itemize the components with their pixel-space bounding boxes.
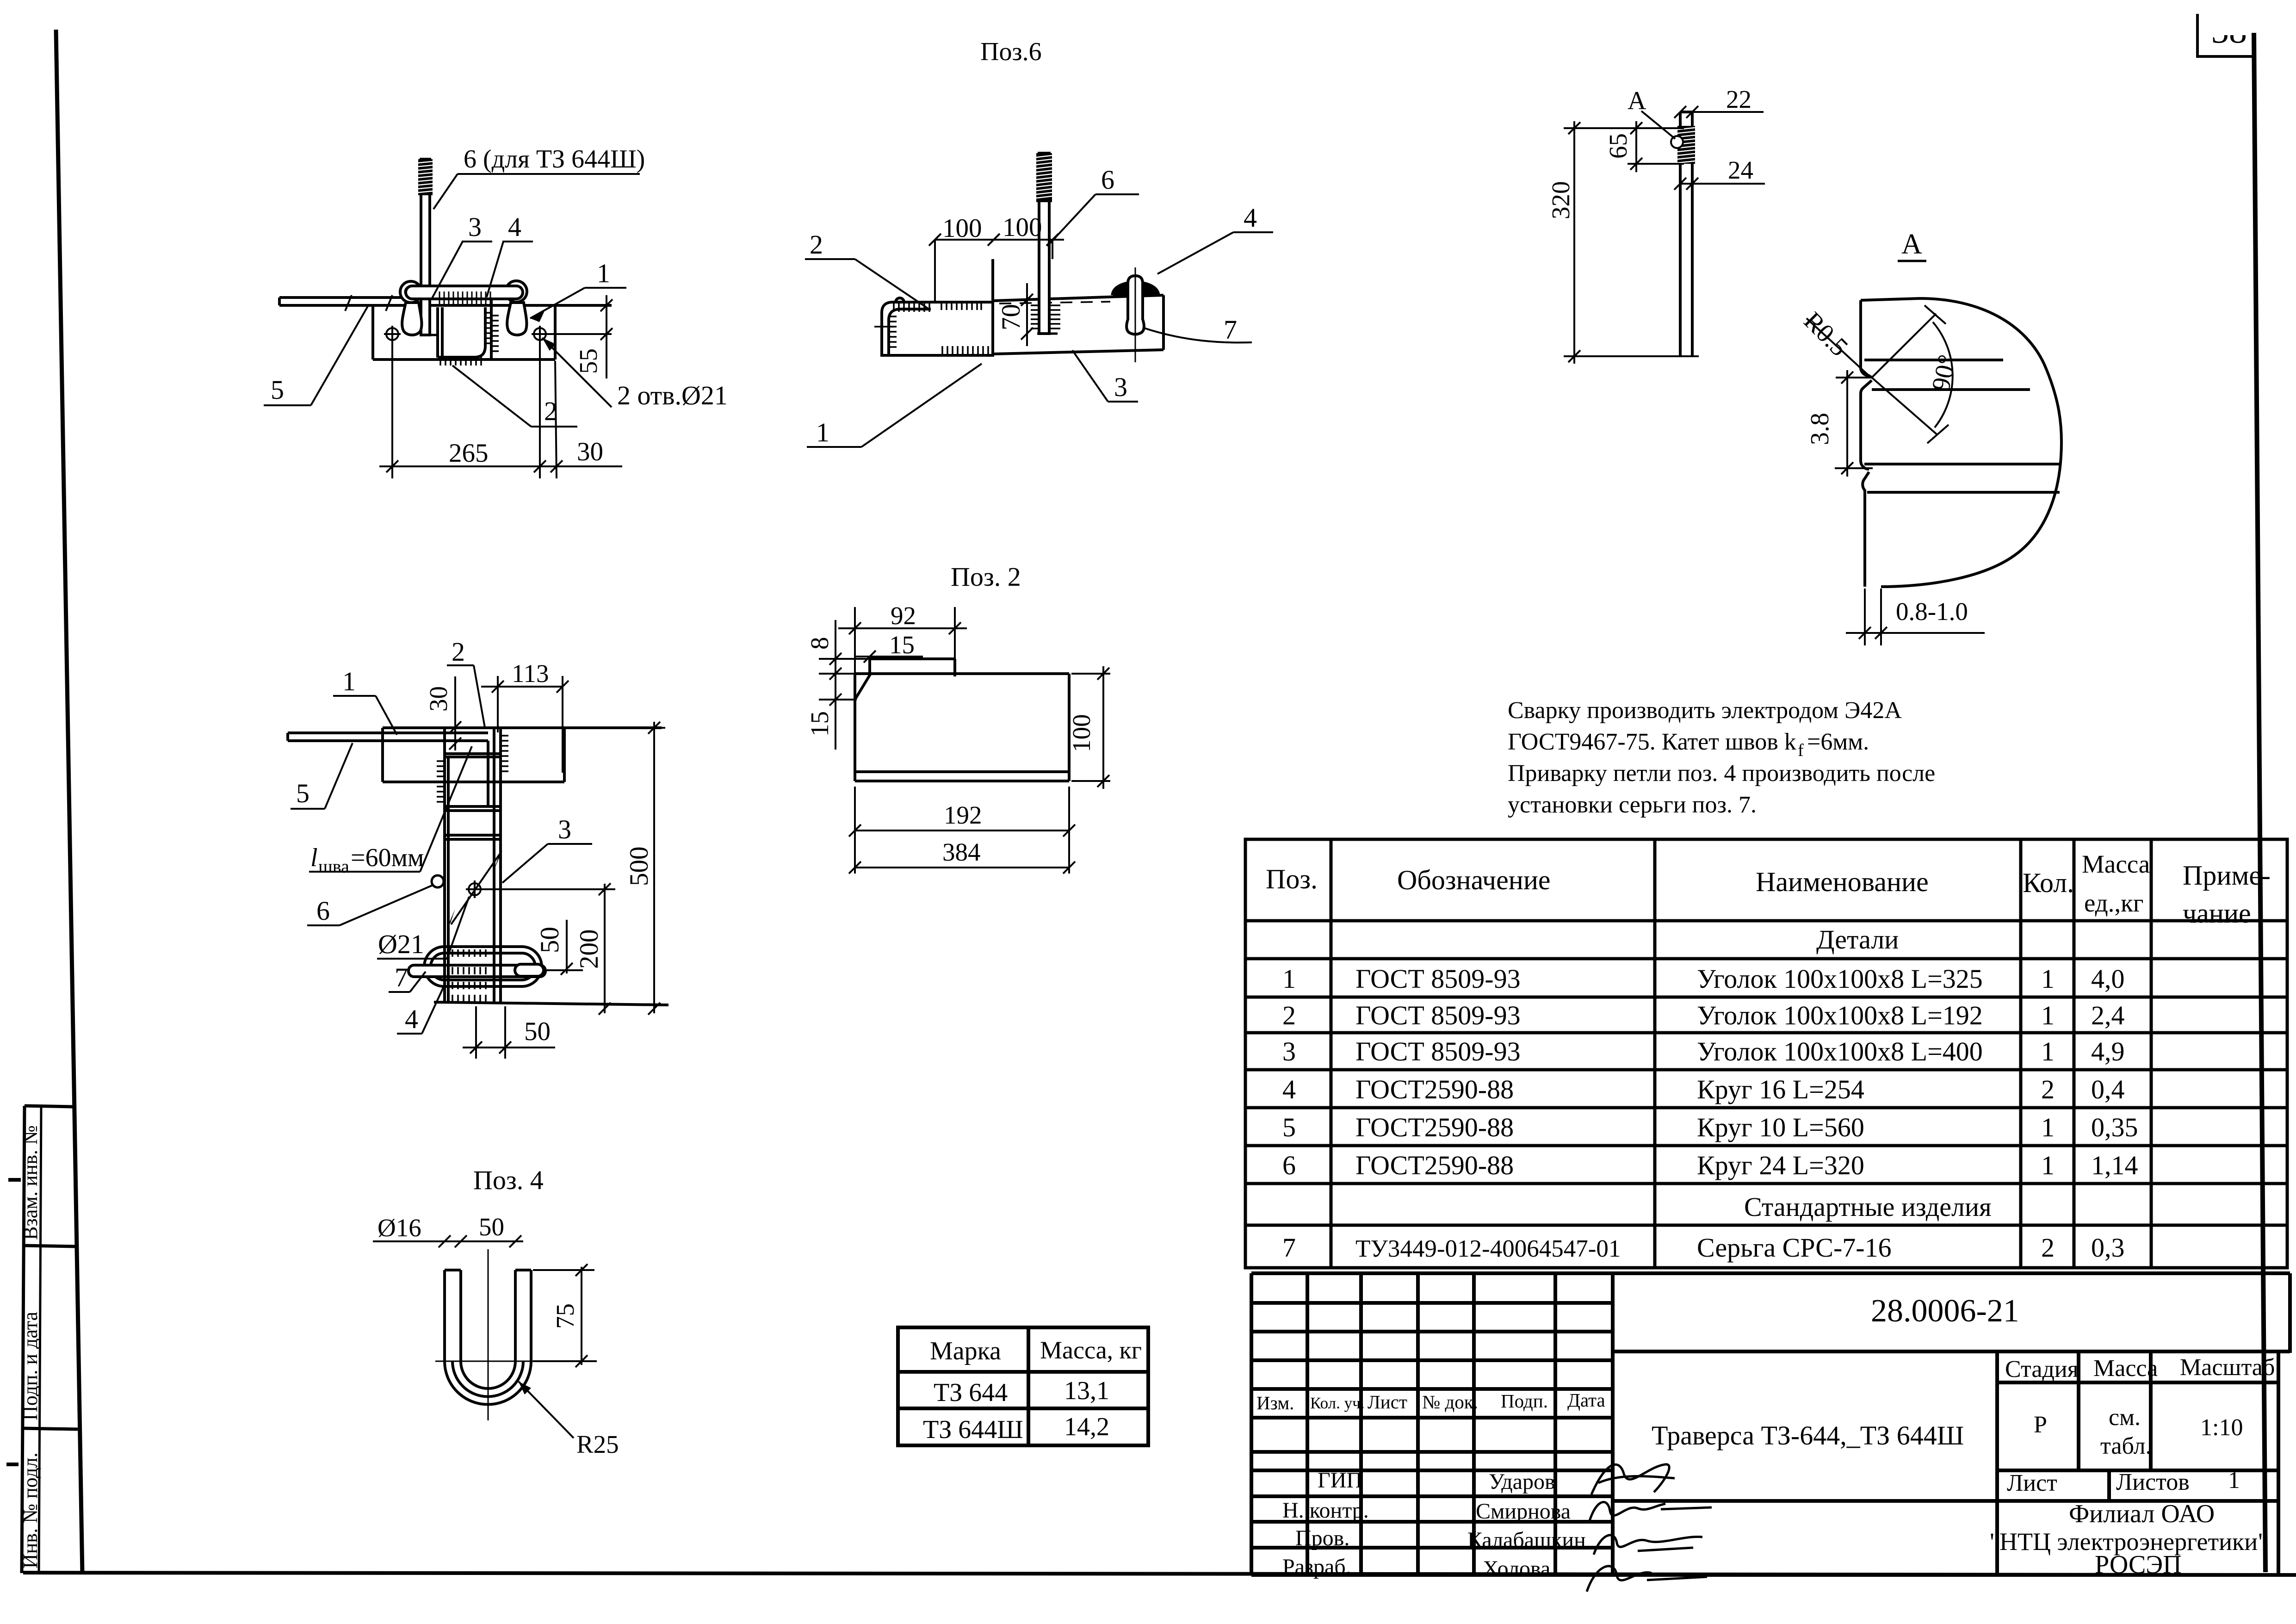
- v3 hole arrow: [451, 854, 500, 924]
- svg-text:Разраб.: Разраб.: [1282, 1555, 1351, 1579]
- svg-text:3.8: 3.8: [1806, 413, 1834, 445]
- svg-text:200: 200: [575, 930, 604, 969]
- title block main divider: [1611, 1273, 1615, 1575]
- poz.2 dim 15 top: [855, 656, 923, 657]
- v3 chain middle link: [431, 953, 535, 980]
- svg-text:Уголок 100х100х8 L=400: Уголок 100х100х8 L=400: [1697, 1036, 1983, 1066]
- v1 hole right: [534, 328, 546, 340]
- svg-text:R25: R25: [576, 1430, 619, 1458]
- svg-text:2 отв.Ø21: 2 отв.Ø21: [617, 380, 728, 410]
- svg-text:15: 15: [805, 711, 834, 737]
- svg-text:ГОСТ 8509-93: ГОСТ 8509-93: [1355, 1000, 1521, 1030]
- v1 bolt poz.6 rod: [421, 159, 430, 335]
- svg-text:1: 1: [2041, 1150, 2055, 1180]
- svg-text:чание: чание: [2183, 898, 2251, 929]
- svg-text:15: 15: [889, 631, 915, 659]
- v2 dim 70: [1026, 283, 1028, 346]
- svg-text:Стандартные изделия: Стандартные изделия: [1744, 1192, 1992, 1222]
- v3 weld hatch right of column: [501, 735, 508, 737]
- svg-text:Стадия: Стадия: [2005, 1356, 2079, 1382]
- parts table column lines: [1330, 839, 1333, 1268]
- svg-text:28.0006-21: 28.0006-21: [1871, 1293, 2019, 1329]
- svg-text:Масса: Масса: [2082, 850, 2150, 878]
- svg-text:ГОСТ2590-88: ГОСТ2590-88: [1355, 1112, 1514, 1142]
- svg-text:Листов: Листов: [2116, 1469, 2190, 1495]
- svg-text:100: 100: [1067, 714, 1095, 753]
- v1 hole left: [386, 328, 398, 340]
- svg-text:13,1: 13,1: [1064, 1376, 1109, 1405]
- svg-text:1:10: 1:10: [2200, 1414, 2243, 1441]
- svg-text:табл.: табл.: [2100, 1433, 2152, 1459]
- svg-text:1: 1: [597, 258, 610, 288]
- v1 shackle ring left inner: [405, 286, 416, 298]
- v3 dim 500: [567, 727, 665, 729]
- v2 pin poz.4 end view: [1126, 276, 1144, 335]
- poz.6 rod outline: [1679, 112, 1682, 357]
- svg-text:=6мм.: =6мм.: [1807, 729, 1869, 755]
- svg-text:Ударов: Ударов: [1489, 1469, 1555, 1494]
- v1 shackle poz.7 left body: [402, 303, 421, 335]
- svg-text:Детали: Детали: [1816, 924, 1899, 955]
- svg-text:Кол.: Кол.: [2023, 868, 2074, 898]
- svg-text:l: l: [310, 843, 318, 872]
- v1 bolt bottom cap: [422, 334, 437, 336]
- svg-text:30: 30: [424, 686, 452, 712]
- v1 weld square poz.3: [438, 307, 485, 357]
- line under Траверса cell: [1613, 1499, 1997, 1503]
- svg-text:Поз.: Поз.: [1266, 864, 1318, 894]
- svg-text:А: А: [1628, 87, 1646, 115]
- svg-text:2: 2: [810, 229, 823, 260]
- v3 weld hatch at chain: [452, 949, 486, 1002]
- v2 weld hatch on top edge mid: [941, 302, 942, 310]
- svg-text:Холова: Холова: [1483, 1556, 1550, 1581]
- svg-text:Сварку производить электродом: Сварку производить электродом Э42А: [1508, 697, 1902, 724]
- v3 bottom edge: [434, 1002, 668, 1005]
- svg-text:ГОСТ9467-75. Катет швов k: ГОСТ9467-75. Катет швов k: [1508, 729, 1796, 755]
- svg-text:Уголок 100х100х8 L=192: Уголок 100х100х8 L=192: [1697, 1000, 1983, 1030]
- svg-text:6 (для ТЗ 644Ш): 6 (для ТЗ 644Ш): [464, 145, 645, 174]
- svg-text:Н. контр.: Н. контр.: [1282, 1498, 1369, 1523]
- svg-text:50: 50: [524, 1017, 551, 1046]
- svg-text:А: А: [1901, 229, 1922, 260]
- svg-text:265: 265: [449, 439, 489, 468]
- svg-text:1: 1: [2228, 1467, 2240, 1494]
- poz.4 dim line top: [373, 1240, 523, 1242]
- svg-text:100: 100: [1003, 213, 1042, 242]
- svg-text:2: 2: [452, 637, 465, 667]
- v3 chain poz.4 outer link: [424, 947, 542, 986]
- v2 shackle ring outer arc: [1112, 282, 1159, 296]
- poz.6 dim 320: [1564, 127, 1684, 129]
- svg-text:ГОСТ 8509-93: ГОСТ 8509-93: [1355, 964, 1521, 994]
- svg-text:75: 75: [551, 1303, 579, 1329]
- svg-text:ед.,кг: ед.,кг: [2084, 889, 2143, 917]
- svg-text:Марка: Марка: [930, 1337, 1001, 1365]
- svg-text:1: 1: [816, 417, 829, 447]
- v3 pin through chain: [408, 965, 545, 977]
- v1 weld hatch right columns: [485, 312, 493, 314]
- stadia texts: [2005, 1354, 2275, 1496]
- svg-text:Поз. 2: Поз. 2: [951, 562, 1021, 592]
- v3 column verticals: [443, 728, 446, 1002]
- v1 plate poz.2 edge: [436, 307, 439, 358]
- v3 poz.6 bolt end circle: [432, 875, 444, 887]
- poz.2 plate right edge: [1068, 674, 1071, 781]
- svg-text:ГОСТ2590-88: ГОСТ2590-88: [1355, 1074, 1514, 1104]
- page number box top right: [2197, 14, 2254, 56]
- v1 dim 265 / 30: [391, 341, 393, 478]
- poz.2 dim 8 and 15 left: [835, 620, 836, 750]
- v2 rod poz.5 center tick: [874, 326, 894, 328]
- fold mark dashes: [8, 1178, 21, 1182]
- svg-text:Лист: Лист: [1368, 1391, 1407, 1413]
- v2 poz.3 right edge: [1162, 295, 1165, 350]
- poz.4 U-bolt bend arcs: [445, 1361, 531, 1405]
- section A horizontal section lines: [1864, 359, 2003, 361]
- svg-text:4: 4: [1244, 203, 1257, 233]
- v1 dim 55: [548, 333, 612, 335]
- frame bottom border line: [23, 1573, 2296, 1575]
- poz.4 R25 leader: [519, 1382, 574, 1438]
- v2 dim 100 100: [935, 239, 1064, 241]
- svg-text:55: 55: [574, 348, 602, 374]
- v1 angle poz.1 plate outline: [371, 305, 374, 360]
- svg-text:Масштаб: Масштаб: [2180, 1354, 2275, 1381]
- v1 pin poz.4 capsule: [406, 286, 523, 299]
- svg-text:см.: см.: [2109, 1404, 2141, 1431]
- v3 column horizontal bands: [445, 752, 501, 755]
- svg-text:30: 30: [577, 437, 603, 466]
- svg-text:4: 4: [508, 212, 521, 242]
- v2 weld hatch at bolt: [1031, 305, 1060, 329]
- v3 dim 200: [481, 888, 615, 890]
- v1 shackle poz.7 right body: [507, 303, 526, 335]
- parts table outer box: [1245, 839, 2287, 1268]
- poz.2 dim 92: [854, 607, 856, 680]
- svg-text:7: 7: [1282, 1233, 1296, 1263]
- v2 bolt poz.6: [1039, 153, 1049, 334]
- svg-text:2: 2: [1282, 1000, 1296, 1030]
- svg-text:РОСЭП: РОСЭП: [2095, 1550, 2182, 1579]
- svg-text:установки серьги поз. 7.: установки серьги поз. 7.: [1508, 792, 1757, 818]
- svg-text:7: 7: [395, 962, 408, 992]
- svg-text:3: 3: [468, 212, 482, 242]
- svg-text:4,9: 4,9: [2091, 1036, 2125, 1066]
- marka table box: [898, 1327, 1148, 1445]
- v2 divider/extension line: [991, 259, 994, 356]
- section A dim 0.8-1.0: [1864, 589, 1866, 645]
- v1 weld hatch bottom: [440, 313, 499, 366]
- section A left edge with thread notches: [1861, 300, 1872, 378]
- poz.4 U-bolt legs: [443, 1270, 446, 1361]
- line under 28.0006-21: [1613, 1350, 2290, 1353]
- svg-text:Поз.6: Поз.6: [980, 37, 1042, 66]
- svg-text:2,4: 2,4: [2091, 1000, 2125, 1030]
- v1 rod poz.5 top line: [279, 296, 406, 299]
- svg-text:192: 192: [944, 801, 982, 829]
- v2 poz.3 top edge: [993, 295, 1163, 301]
- v2 rod poz.5 end bump: [896, 298, 904, 302]
- svg-text:14,2: 14,2: [1064, 1413, 1109, 1441]
- svg-text:6: 6: [1282, 1150, 1296, 1180]
- svg-text:Кол. уч.: Кол. уч.: [1310, 1394, 1364, 1412]
- v3 dim 50 upper: [566, 920, 568, 973]
- svg-text:1: 1: [2041, 964, 2055, 994]
- svg-text:Масса, кг: Масса, кг: [1040, 1336, 1142, 1364]
- svg-text:65: 65: [1604, 133, 1632, 159]
- parts table rows text: [1282, 924, 2138, 1263]
- v3 rod poz.5: [288, 731, 488, 734]
- svg-text:Круг 10 L=560: Круг 10 L=560: [1697, 1112, 1864, 1142]
- svg-text:90°: 90°: [1926, 352, 1962, 394]
- svg-text:5: 5: [1282, 1112, 1296, 1142]
- svg-text:ГОСТ 8509-93: ГОСТ 8509-93: [1355, 1036, 1521, 1066]
- svg-text:Круг 16 L=254: Круг 16 L=254: [1697, 1074, 1864, 1104]
- svg-text:Обозначение: Обозначение: [1397, 865, 1551, 895]
- svg-text:Ø16: Ø16: [378, 1214, 421, 1242]
- svg-text:Приварку петли поз. 4 производ: Приварку петли поз. 4 производить после: [1508, 760, 1935, 787]
- frame right border line: [2254, 33, 2265, 1572]
- frame left border line: [56, 30, 82, 1574]
- title block outer: [1251, 1271, 2290, 1275]
- svg-text:Подп.: Подп.: [1501, 1390, 1548, 1412]
- marka table text: [923, 1336, 1142, 1444]
- svg-text:50: 50: [535, 927, 564, 953]
- svg-text:0,4: 0,4: [2091, 1074, 2125, 1104]
- svg-text:1: 1: [2041, 1112, 2055, 1142]
- v2 poz.3 bottom edge: [994, 350, 1163, 354]
- sidebar box: [22, 1106, 25, 1573]
- svg-text:ТЗ 644Ш: ТЗ 644Ш: [923, 1415, 1023, 1444]
- v3 plate poz.1 front: [383, 726, 662, 729]
- v3 dim 30: [454, 676, 456, 750]
- v1 shackle ring right inner: [511, 286, 522, 297]
- svg-text:384: 384: [942, 838, 981, 866]
- stadia box: [1995, 1351, 1999, 1575]
- svg-text:f: f: [1798, 741, 1804, 760]
- v3 pin centerline: [546, 969, 583, 971]
- v3 dim 113: [497, 676, 499, 732]
- poz.4 dim 75: [533, 1269, 594, 1271]
- svg-text:2: 2: [2041, 1233, 2055, 1263]
- svg-text:Приме-: Приме-: [2183, 860, 2271, 891]
- svg-text:Поз. 4: Поз. 4: [473, 1165, 544, 1195]
- svg-text:4,0: 4,0: [2091, 964, 2125, 994]
- svg-text:3: 3: [558, 814, 571, 844]
- parts table header text: [1266, 850, 2271, 929]
- poz.6 dim 22: [1680, 111, 1764, 113]
- svg-text:1: 1: [1282, 964, 1296, 994]
- welding note text: [1508, 697, 1935, 818]
- svg-text:0,35: 0,35: [2091, 1112, 2138, 1142]
- svg-text:ГИП: ГИП: [1318, 1468, 1362, 1493]
- svg-text:3: 3: [1114, 372, 1127, 402]
- svg-text:Филиал ОАО: Филиал ОАО: [2069, 1500, 2215, 1528]
- svg-text:Смирнова: Смирнова: [1476, 1499, 1571, 1524]
- svg-text:24: 24: [1728, 156, 1753, 184]
- v2 weld hatch left inner of poz.1: [889, 316, 897, 317]
- svg-text:22: 22: [1726, 85, 1751, 113]
- svg-text:92: 92: [891, 601, 916, 630]
- svg-text:0,3: 0,3: [2091, 1233, 2125, 1263]
- v2 pin centerline: [1135, 267, 1136, 362]
- v2 weld hatch top of poz.1: [889, 302, 988, 355]
- section A R0.5 leader: [1807, 318, 1870, 377]
- poz.2 plate bottom edges: [855, 770, 1069, 773]
- svg-text:1,14: 1,14: [2091, 1150, 2138, 1180]
- left columns: [1306, 1273, 1309, 1575]
- svg-text:113: 113: [512, 659, 549, 688]
- v2 hidden dashed line: [999, 302, 1110, 304]
- v1 shackle ring right: [506, 281, 527, 302]
- svg-text:Взам. инв. №: Взам. инв. №: [19, 1125, 42, 1240]
- v2 shackle ring crescents: [1114, 285, 1127, 295]
- svg-text:3: 3: [1282, 1036, 1296, 1066]
- poz.2 plate left edge: [854, 674, 856, 781]
- svg-text:6: 6: [1101, 165, 1114, 195]
- svg-text:ГОСТ2590-88: ГОСТ2590-88: [1355, 1150, 1514, 1180]
- svg-text:№ док.: № док.: [1422, 1391, 1478, 1413]
- svg-text:7: 7: [1224, 315, 1237, 345]
- svg-text:4: 4: [405, 1004, 418, 1034]
- poz.2 dim 384: [855, 867, 1069, 868]
- poz.4 centerlines: [435, 1249, 543, 1420]
- v2 weld hatch bottom of poz.1: [941, 346, 943, 355]
- svg-text:2: 2: [2041, 1074, 2055, 1104]
- svg-text:Подп. и дата: Подп. и дата: [19, 1312, 42, 1420]
- poz.2 plate tab outline: [870, 657, 955, 660]
- svg-text:8: 8: [805, 637, 834, 650]
- poz.6 dim 24: [1680, 183, 1765, 185]
- svg-text:Траверса ТЗ-644,_ТЗ 644Ш: Траверса ТЗ-644,_ТЗ 644Ш: [1652, 1420, 1964, 1450]
- v1 pin thread ticks: [439, 291, 490, 306]
- poz.6 label A leader: [1641, 111, 1675, 139]
- svg-text:Дата: Дата: [1567, 1389, 1605, 1411]
- poz.6 dim 65: [1635, 121, 1637, 172]
- svg-text:100: 100: [942, 214, 982, 243]
- svg-text:Пров.: Пров.: [1295, 1526, 1349, 1550]
- v3 dim 50 bottom: [475, 1006, 477, 1059]
- svg-text:Инв. № подл.: Инв. № подл.: [19, 1452, 42, 1568]
- svg-text:500: 500: [625, 847, 654, 886]
- svg-text:Ø21: Ø21: [378, 929, 424, 959]
- title block signature rows: [1282, 1468, 1586, 1581]
- left rows: [1251, 1301, 1613, 1305]
- svg-text:50: 50: [479, 1213, 504, 1241]
- svg-text:320: 320: [1547, 181, 1575, 220]
- svg-text:70: 70: [996, 304, 1026, 330]
- signature squiggles: [1587, 1464, 1712, 1592]
- svg-text:Масса: Масса: [2093, 1355, 2158, 1382]
- svg-text:=60мм: =60мм: [351, 843, 424, 872]
- poz.2 dim 192: [854, 787, 856, 874]
- svg-text:6: 6: [316, 896, 330, 926]
- svg-text:0.8-1.0: 0.8-1.0: [1896, 597, 1968, 626]
- svg-text:ТЗ 644: ТЗ 644: [934, 1378, 1008, 1407]
- v1 shackle ring left: [400, 281, 421, 303]
- svg-text:Изм.: Изм.: [1256, 1392, 1294, 1413]
- svg-text:Р: Р: [2034, 1412, 2047, 1438]
- svg-text:Уголок 100х100х8 L=325: Уголок 100х100х8 L=325: [1697, 964, 1983, 994]
- v3 weld hatch left of column: [437, 736, 508, 802]
- svg-text:5: 5: [271, 375, 284, 405]
- poz.6 thread hatch: [1677, 126, 1695, 164]
- svg-text:4: 4: [1282, 1074, 1296, 1104]
- svg-text:5: 5: [296, 778, 309, 808]
- poz.2 plate chamfer: [855, 674, 871, 700]
- section A 90deg angle lines: [1872, 314, 1936, 378]
- v1 angle poz.1 top edge long line: [279, 304, 612, 307]
- poz.6 detail A circle: [1671, 136, 1683, 148]
- v2 angle poz.1 end view outline: [882, 302, 993, 356]
- poz.2 plate top edge: [855, 672, 1069, 675]
- section A outline top lobe: [1861, 298, 2061, 587]
- svg-text:Круг 24 L=320: Круг 24 L=320: [1697, 1150, 1864, 1180]
- svg-text:Наименование: Наименование: [1756, 867, 1929, 897]
- v3 column over chain: [445, 944, 501, 1002]
- parts table row lines: [1245, 919, 2287, 923]
- title block header texts: [1256, 1389, 1605, 1413]
- svg-text:1: 1: [342, 666, 356, 696]
- svg-text:Калабашкин: Калабашкин: [1467, 1528, 1586, 1552]
- svg-text:ТУ3449-012-40064547-01: ТУ3449-012-40064547-01: [1355, 1235, 1621, 1262]
- svg-text:Серьга СРС-7-16: Серьга СРС-7-16: [1697, 1233, 1892, 1263]
- svg-text:Лист: Лист: [2007, 1470, 2057, 1496]
- svg-text:шва: шва: [318, 856, 349, 877]
- section A dim 3.8: [1836, 377, 1871, 378]
- svg-text:1: 1: [2041, 1036, 2055, 1066]
- v1 bar tick marks: [345, 295, 352, 311]
- v3 serga pin right end: [515, 964, 544, 976]
- svg-text:1: 1: [2041, 1000, 2055, 1030]
- v3 hole Ø21: [469, 883, 481, 895]
- poz.2 dim 100 right: [1071, 673, 1110, 675]
